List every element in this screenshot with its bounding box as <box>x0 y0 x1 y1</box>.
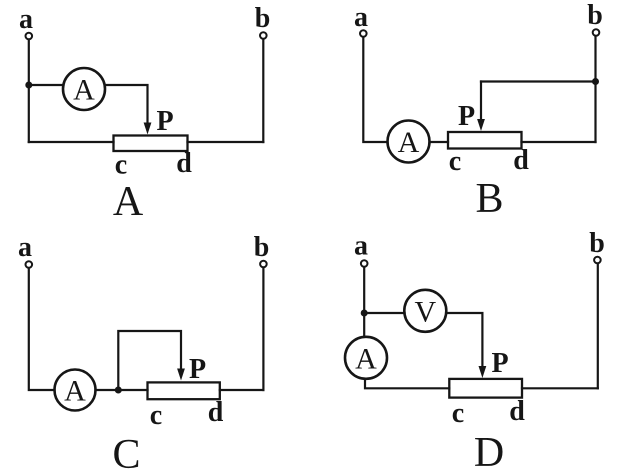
potentiometer P box (circuit A) <box>114 136 188 152</box>
svg-text:A: A <box>398 126 420 159</box>
svg-text:d: d <box>176 148 192 179</box>
svg-text:a: a <box>19 4 33 35</box>
svg-text:d: d <box>208 397 224 428</box>
wire ammeter bottom to pot (circuit D) <box>365 379 449 389</box>
svg-text:A: A <box>113 179 144 225</box>
wire b vertical (circuit A) <box>262 39 264 142</box>
wire a vertical (circuit D) <box>363 267 365 337</box>
wiper loop wire (circuit C) <box>118 331 181 390</box>
wire ammeter to wiper (circuit A) <box>105 85 148 123</box>
svg-text:A: A <box>355 342 377 375</box>
svg-text:d: d <box>513 145 529 176</box>
svg-text:b: b <box>255 3 271 34</box>
terminal a (circuit B) <box>360 30 367 37</box>
potentiometer P box (circuit C) <box>148 382 220 399</box>
wire wiper top horizontal (circuit B) <box>481 80 596 82</box>
junction dot (circuit A) <box>25 82 32 89</box>
ammeter A3 (circuit C) <box>55 370 96 411</box>
svg-text:c: c <box>150 400 162 431</box>
svg-text:a: a <box>354 2 368 33</box>
svg-text:c: c <box>449 146 461 177</box>
wire junction to voltmeter (circuit D) <box>364 312 404 314</box>
wire junction to ammeter (circuit A) <box>29 84 64 86</box>
wire ammeter to junction (circuit C) <box>96 389 148 391</box>
junction dot (circuit D) <box>361 310 368 317</box>
terminal a (circuit D) <box>361 260 368 267</box>
svg-text:B: B <box>475 176 503 222</box>
wiper arrow (circuit B) <box>477 119 485 131</box>
wire voltmeter to wiper (circuit D) <box>446 313 482 366</box>
svg-text:P: P <box>491 348 508 379</box>
wire a vertical (circuit B) <box>363 37 387 142</box>
svg-text:C: C <box>112 432 140 474</box>
wire a vertical (circuit A) <box>28 40 30 142</box>
terminal b (circuit D) <box>594 257 601 264</box>
terminal a (circuit A) <box>26 33 33 40</box>
wiper arrow (circuit A) <box>144 123 152 135</box>
voltmeter V1 (circuit D) <box>404 290 446 332</box>
junction dot (circuit B) <box>592 78 599 85</box>
svg-text:d: d <box>509 396 525 427</box>
svg-text:A: A <box>73 74 95 107</box>
wire bottom left to pot terminal c (circuit A) <box>29 141 114 143</box>
svg-text:b: b <box>589 228 605 259</box>
svg-text:D: D <box>474 430 504 474</box>
svg-text:b: b <box>587 0 603 31</box>
wire pot d to b branch (circuit C) <box>220 389 264 391</box>
svg-text:P: P <box>189 354 206 385</box>
wire pot d to b branch (circuit D) <box>522 387 598 389</box>
ammeter A1 (circuit A) <box>63 68 105 110</box>
svg-text:V: V <box>414 296 436 329</box>
svg-text:a: a <box>18 232 32 263</box>
terminal b (circuit C) <box>260 261 267 268</box>
wire pot terminal d to b branch (circuit A) <box>188 141 264 143</box>
terminal a (circuit C) <box>26 261 33 268</box>
wire b vertical (circuit C) <box>262 268 264 390</box>
svg-text:a: a <box>354 231 368 262</box>
svg-text:c: c <box>115 150 127 181</box>
wire a vertical (circuit C) <box>29 268 55 390</box>
wire b vertical (circuit B) <box>594 36 596 142</box>
wire ammeter to pot (circuit B) <box>430 141 449 143</box>
svg-text:P: P <box>156 106 173 137</box>
junction dot (circuit C) <box>115 387 122 394</box>
potentiometer P box (circuit B) <box>448 132 522 149</box>
svg-text:P: P <box>458 101 475 132</box>
svg-text:A: A <box>64 375 86 408</box>
potentiometer P box (circuit D) <box>449 379 522 398</box>
wire pot d to b branch (circuit B) <box>522 141 596 143</box>
ammeter A2 (circuit B) <box>388 121 430 163</box>
svg-text:c: c <box>452 398 464 429</box>
terminal b (circuit B) <box>593 29 600 36</box>
wiper arrow (circuit C) <box>177 369 185 381</box>
wiper wire from top (circuit B) <box>480 82 482 120</box>
wiper arrow (circuit D) <box>479 366 487 378</box>
ammeter A4 (circuit D) <box>345 337 387 379</box>
terminal b (circuit A) <box>260 32 267 39</box>
wire b vertical (circuit D) <box>597 264 599 389</box>
svg-text:b: b <box>254 232 270 263</box>
